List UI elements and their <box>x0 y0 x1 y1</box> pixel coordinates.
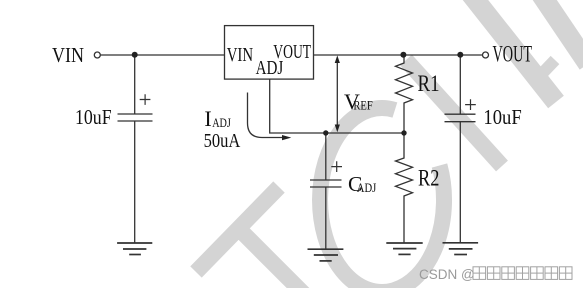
svg-text:VOUT: VOUT <box>493 42 533 67</box>
svg-text:ADJ: ADJ <box>357 181 377 195</box>
svg-text:10uF: 10uF <box>483 105 521 129</box>
svg-text:ADJ: ADJ <box>256 57 284 79</box>
svg-text:50uA: 50uA <box>204 130 241 152</box>
svg-text:I: I <box>204 106 211 131</box>
svg-text:VIN: VIN <box>227 44 253 66</box>
svg-text:R1: R1 <box>418 71 440 96</box>
svg-text:CSDN @: CSDN @ <box>419 267 475 282</box>
svg-text:R2: R2 <box>418 166 439 191</box>
svg-text:ADJ: ADJ <box>212 116 231 130</box>
svg-text:10uF: 10uF <box>75 105 112 129</box>
svg-text:VIN: VIN <box>52 43 84 67</box>
svg-text:REF: REF <box>353 98 372 112</box>
